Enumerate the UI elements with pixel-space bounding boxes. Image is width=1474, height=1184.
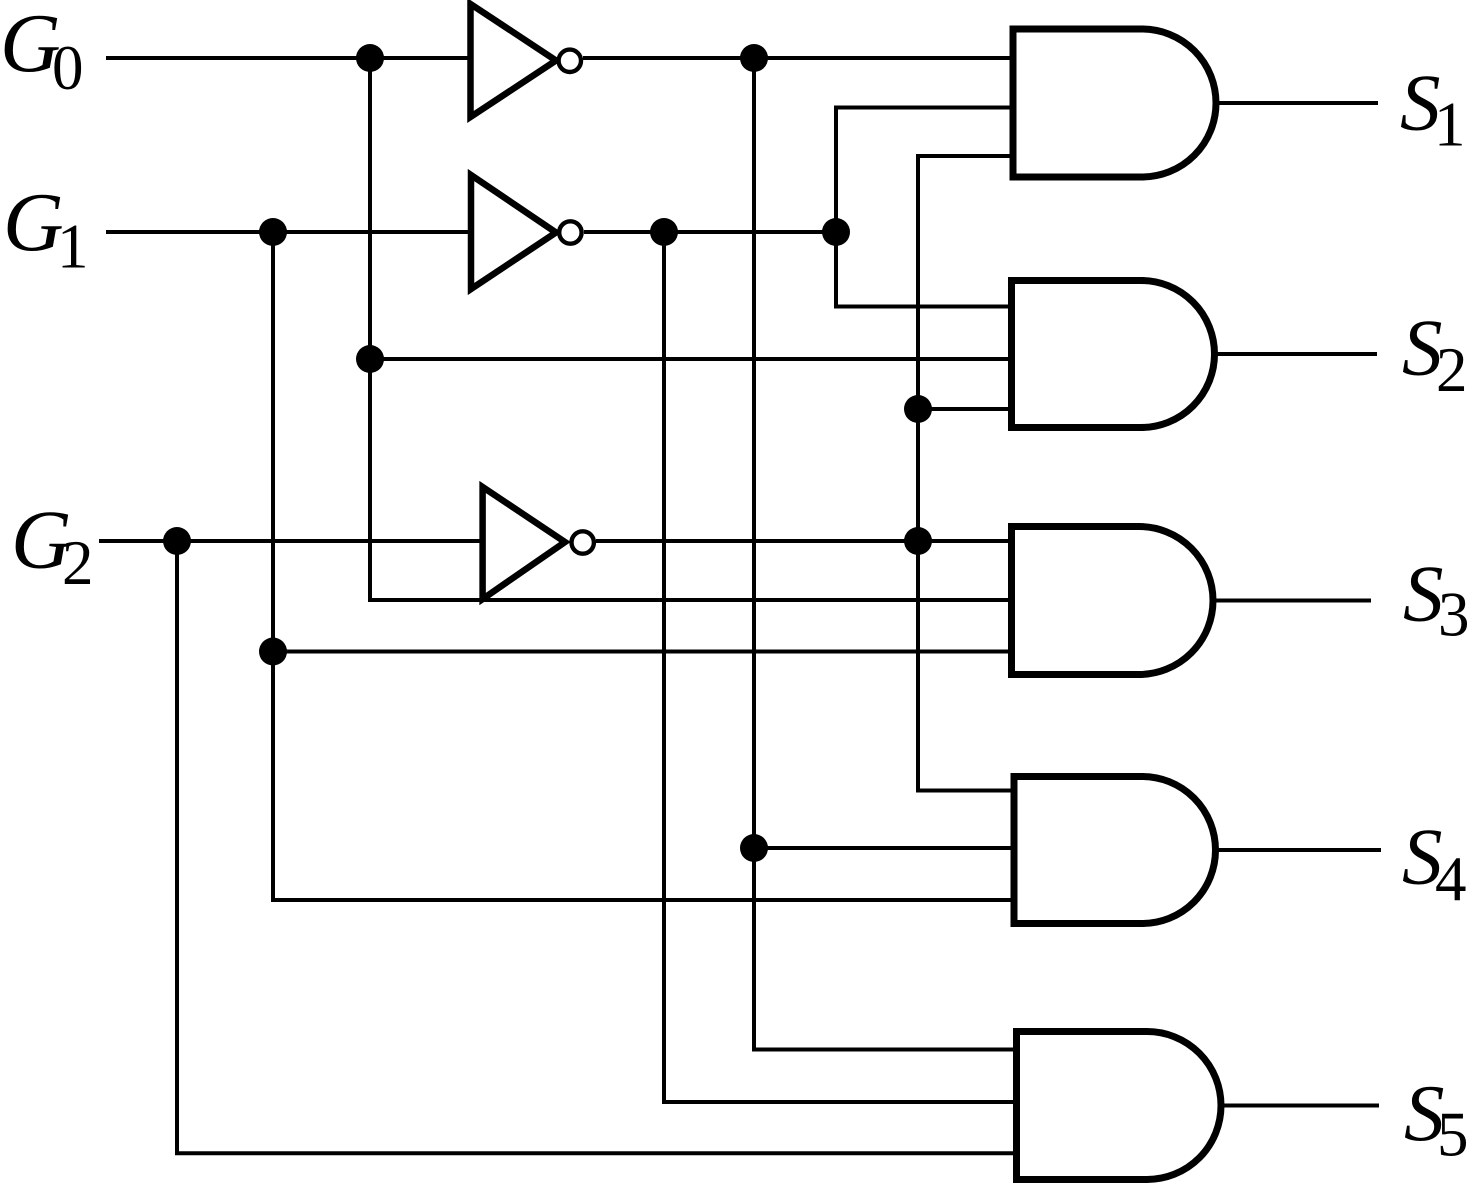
svg-text:4: 4 <box>1435 844 1467 914</box>
svg-text:5: 5 <box>1437 1100 1469 1170</box>
svg-text:1: 1 <box>57 211 89 281</box>
svg-text:1: 1 <box>1434 89 1466 159</box>
svg-text:0: 0 <box>52 33 84 103</box>
svg-text:3: 3 <box>1438 579 1470 649</box>
svg-text:2: 2 <box>1436 335 1468 405</box>
svg-text:G: G <box>3 177 64 270</box>
svg-text:2: 2 <box>62 528 94 598</box>
